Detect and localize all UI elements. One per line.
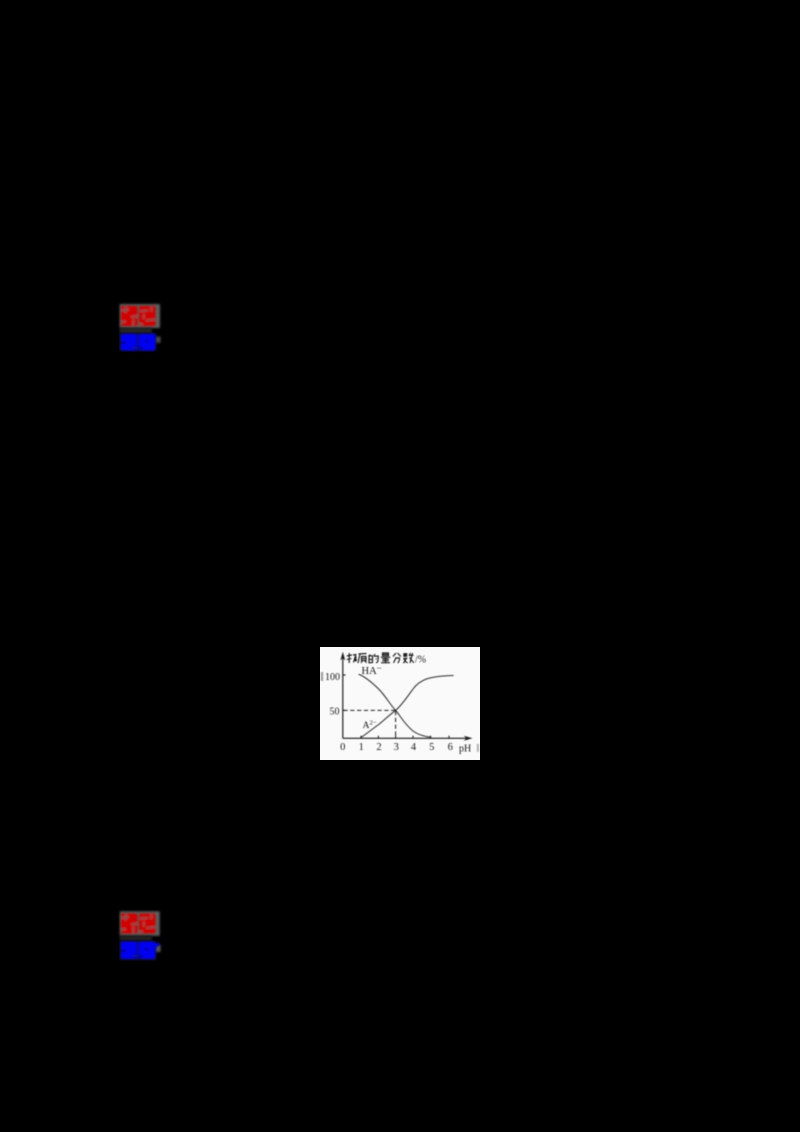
svg-text:100: 100 (325, 672, 340, 683)
svg-text:5: 5 (429, 742, 434, 753)
svg-text:3: 3 (394, 742, 399, 753)
axis title glyph 量 (381, 653, 391, 663)
curve HA- decreasing (359, 674, 431, 737)
axis title glyph 的 (369, 654, 378, 663)
red char 2 (139, 914, 156, 934)
y-axis arrowhead (340, 652, 345, 661)
gray box behind red text (120, 304, 160, 328)
axis title glyph 数 (403, 653, 414, 663)
svg-text:1: 1 (359, 742, 364, 753)
badge pair 1 (red answer badge + blue analysis badge) (112, 298, 168, 364)
x ticks (361, 736, 449, 739)
blue char 1 (121, 334, 138, 351)
scan artifact gray bar left (321, 672, 323, 681)
svg-text:/%: /% (415, 655, 426, 666)
dark bg behind blue text (120, 941, 156, 960)
x tick labels (340, 742, 453, 753)
svg-text:50: 50 (330, 707, 340, 718)
badge pair 2 (red answer badge + blue analysis badge) (112, 905, 168, 969)
svg-text:pH: pH (459, 744, 471, 755)
x-axis (343, 737, 467, 739)
gray patch right of blue text (156, 945, 161, 952)
gray box behind red text (120, 911, 160, 936)
gray patch right of blue text (156, 337, 161, 343)
red char 1 (121, 914, 138, 934)
blue char 2 (138, 942, 159, 960)
blue char 1 (121, 942, 138, 960)
dashed line horizontal at 50 (344, 709, 396, 711)
chart image (scanned chemistry graph) (320, 647, 480, 760)
white scan background (320, 647, 480, 760)
axis title glyph 物 (347, 653, 357, 663)
axis title glyph 分 (393, 653, 401, 663)
y-axis (342, 655, 344, 738)
dark strip under gray box (120, 328, 152, 334)
dashed line vertical at pH3 (395, 711, 397, 738)
y tick at 100 (343, 674, 346, 676)
svg-text:6: 6 (448, 742, 453, 753)
dark strip under gray box (120, 936, 152, 941)
red char 2 (139, 306, 156, 326)
blue char 2 (138, 334, 155, 351)
svg-text:0: 0 (340, 742, 345, 753)
svg-text:4: 4 (411, 742, 417, 753)
y tick at 50 (343, 709, 346, 711)
axis title glyph 质 (358, 654, 367, 664)
scan artifact gray bar right (477, 744, 479, 752)
svg-text:2: 2 (376, 742, 381, 753)
curve A2- increasing (361, 676, 454, 738)
dark bg behind blue text (120, 333, 156, 351)
x-axis arrowhead (464, 736, 473, 741)
red char 1 (121, 306, 138, 326)
